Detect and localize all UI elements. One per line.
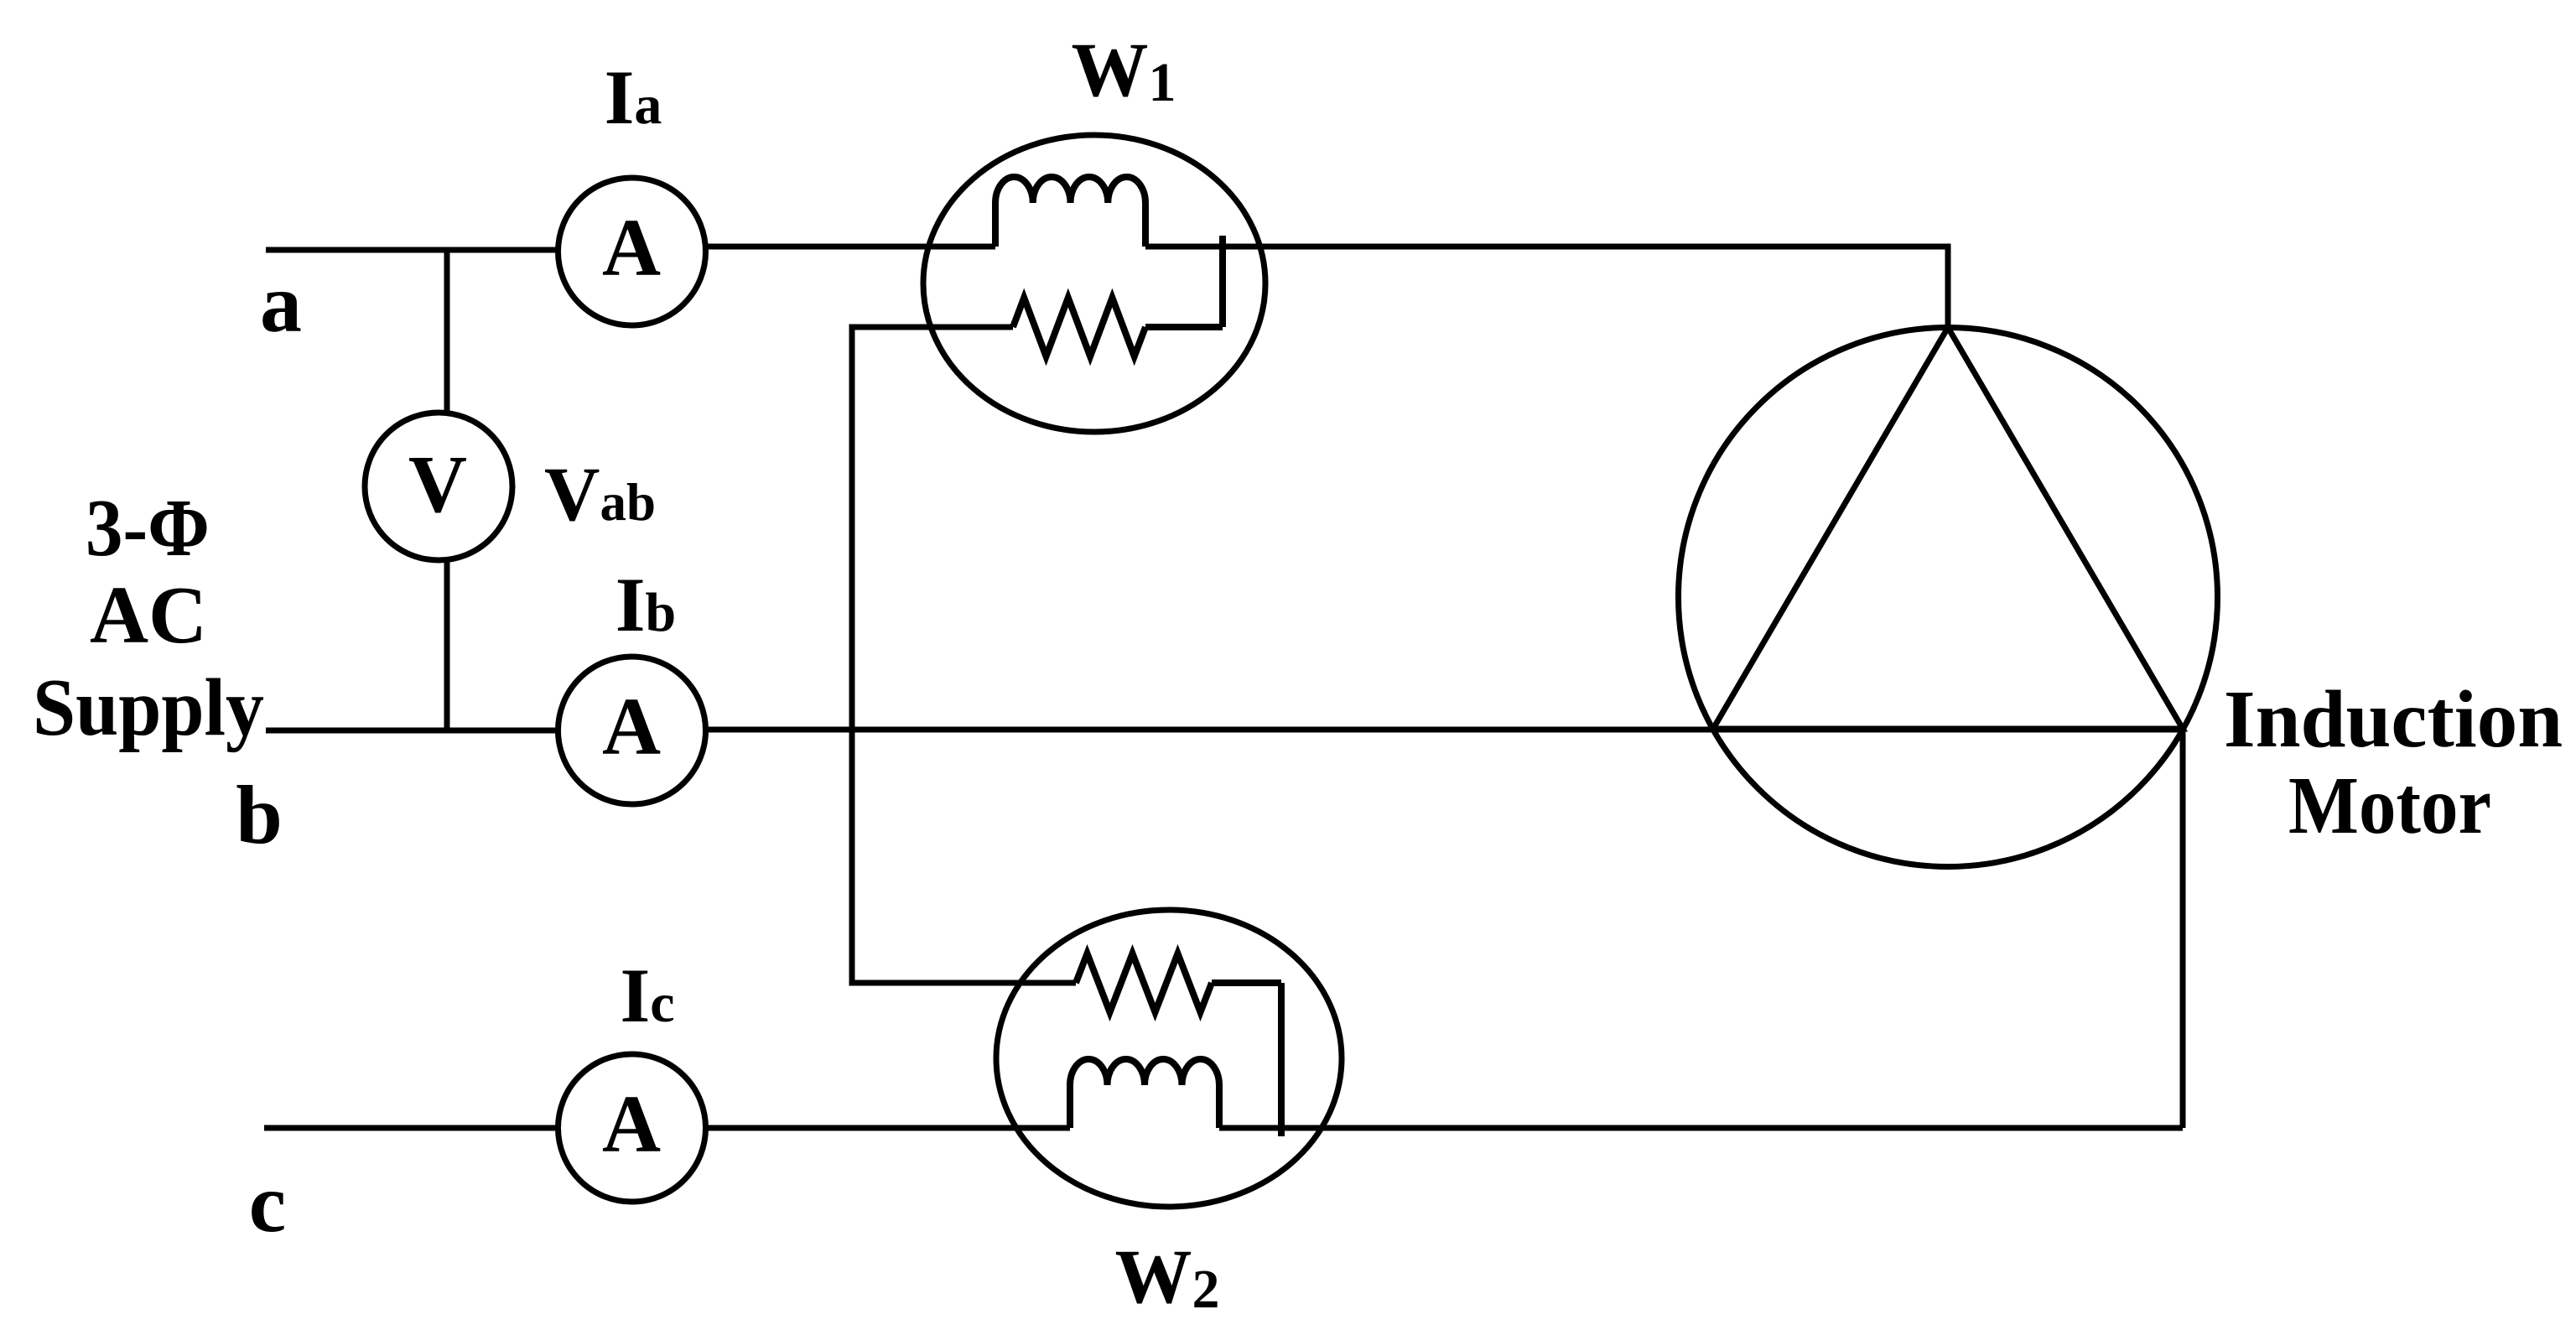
svg-text:A: A <box>602 203 661 293</box>
wire voltmeter branch upper <box>444 250 450 413</box>
svg-text:V: V <box>408 439 467 529</box>
wire phase b left segment <box>266 728 558 734</box>
wattmeter W2 case <box>996 910 1342 1207</box>
svg-text:b: b <box>236 768 283 861</box>
voltmeter V <box>365 413 512 560</box>
wattmeter W2 current coil <box>1070 1059 1219 1128</box>
wattmeter W2 pressure coil right lead and tap stub <box>1212 983 1281 1136</box>
wire phase a from W1 to motor with corner down to motor apex <box>1145 244 1948 328</box>
wire voltmeter branch lower <box>444 559 450 730</box>
wattmeter W1 current coil <box>995 177 1145 247</box>
label 3-phase AC supply <box>33 483 264 752</box>
induction motor delta winding triangle <box>1713 328 2183 730</box>
svg-text:A: A <box>602 1079 661 1169</box>
ammeter A (phase b) <box>558 657 706 804</box>
wire phase a from ammeter to wattmeter W1 <box>706 244 995 250</box>
label Induction Motor <box>2224 674 2563 850</box>
wire phase c left segment <box>264 1125 558 1131</box>
wire phase b from ammeter to motor (triangle bottom) <box>706 727 2183 733</box>
wire phase c from ammeter to W2 <box>706 1125 1070 1131</box>
svg-text:Motor: Motor <box>2288 761 2491 850</box>
wattmeter W1 case <box>923 135 1265 432</box>
wire phase a left segment <box>266 247 558 253</box>
svg-text:A: A <box>602 682 661 772</box>
svg-text:3-Φ: 3-Φ <box>86 483 210 573</box>
wattmeter W2 pressure coil resistor <box>1076 953 1212 1012</box>
svg-text:Supply: Supply <box>33 662 264 752</box>
wattmeter W1 pressure coil resistor <box>1013 298 1145 356</box>
induction motor circle <box>1679 328 2218 867</box>
svg-text:c: c <box>249 1156 286 1250</box>
ammeter A (phase a) <box>558 178 706 325</box>
wire motor right vertical to phase c <box>2180 729 2186 1128</box>
ammeter A (phase c) <box>558 1054 706 1202</box>
wire W1 pressure coil to W2 pressure coil <box>852 327 1076 983</box>
svg-text:a: a <box>260 257 302 350</box>
wattmeter W1 pressure coil right lead and tap stub <box>1145 236 1223 327</box>
svg-text:AC: AC <box>90 570 207 660</box>
svg-text:Induction: Induction <box>2224 674 2563 764</box>
wire phase c from W2 to motor corner <box>1219 1125 2183 1131</box>
